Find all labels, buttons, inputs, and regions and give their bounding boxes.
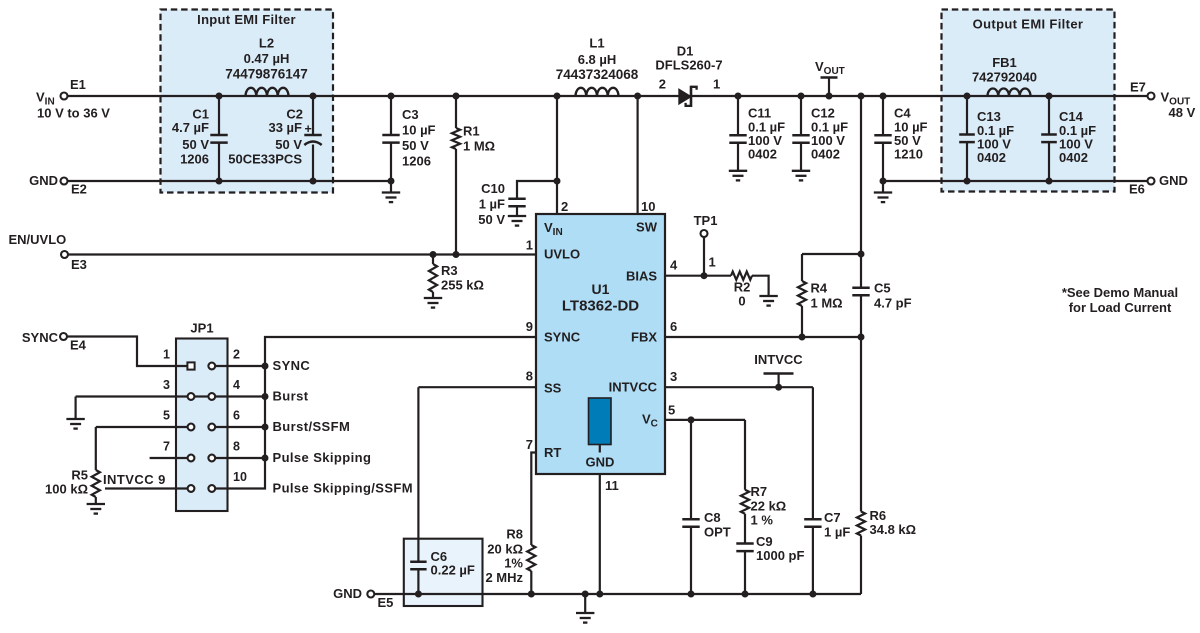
svg-text:Pulse Skipping/SSFM: Pulse Skipping/SSFM bbox=[273, 481, 414, 496]
svg-text:C8: C8 bbox=[704, 510, 721, 525]
svg-text:OPT: OPT bbox=[704, 525, 731, 540]
svg-text:TP1: TP1 bbox=[694, 213, 718, 228]
svg-text:SW: SW bbox=[636, 220, 658, 235]
svg-text:4: 4 bbox=[670, 258, 678, 273]
svg-text:1000 pF: 1000 pF bbox=[756, 548, 804, 563]
svg-text:7: 7 bbox=[526, 437, 533, 452]
svg-text:0402: 0402 bbox=[1059, 150, 1088, 165]
svg-text:742792040: 742792040 bbox=[972, 70, 1037, 85]
svg-text:3: 3 bbox=[163, 378, 170, 392]
svg-text:SYNC: SYNC bbox=[273, 358, 311, 373]
svg-text:C11: C11 bbox=[748, 106, 771, 121]
svg-text:7: 7 bbox=[163, 440, 170, 454]
svg-text:Burst/SSFM: Burst/SSFM bbox=[273, 419, 351, 434]
svg-text:2: 2 bbox=[659, 77, 666, 92]
svg-text:SYNC: SYNC bbox=[544, 330, 581, 345]
svg-text:RT: RT bbox=[544, 445, 561, 460]
svg-text:C10: C10 bbox=[481, 181, 505, 196]
svg-text:9: 9 bbox=[526, 319, 533, 334]
svg-text:R3: R3 bbox=[441, 263, 458, 278]
svg-text:3: 3 bbox=[670, 369, 677, 384]
svg-text:E5: E5 bbox=[378, 595, 394, 610]
svg-text:C14: C14 bbox=[1059, 109, 1084, 124]
svg-text:100 kΩ: 100 kΩ bbox=[45, 482, 88, 497]
svg-text:BIAS: BIAS bbox=[626, 269, 657, 284]
svg-text:0402: 0402 bbox=[811, 147, 840, 162]
svg-text:0.22 µF: 0.22 µF bbox=[431, 563, 475, 578]
svg-text:C12: C12 bbox=[811, 106, 835, 121]
svg-text:C3: C3 bbox=[402, 107, 419, 122]
svg-text:GND: GND bbox=[1159, 173, 1188, 188]
svg-text:R5: R5 bbox=[71, 468, 88, 483]
svg-text:1206: 1206 bbox=[180, 152, 209, 167]
svg-text:FBX: FBX bbox=[631, 330, 657, 345]
svg-text:255 kΩ: 255 kΩ bbox=[441, 278, 484, 293]
svg-text:10 V to 36 V: 10 V to 36 V bbox=[37, 106, 110, 121]
svg-text:R6: R6 bbox=[870, 508, 887, 523]
svg-text:L2: L2 bbox=[259, 36, 274, 51]
svg-text:1 %: 1 % bbox=[751, 513, 774, 528]
svg-text:6: 6 bbox=[233, 409, 240, 423]
svg-text:D1: D1 bbox=[677, 44, 694, 59]
svg-text:4: 4 bbox=[233, 378, 240, 392]
svg-text:6.8 µH: 6.8 µH bbox=[578, 52, 617, 67]
svg-text:50CE33PCS: 50CE33PCS bbox=[228, 152, 302, 167]
svg-text:R4: R4 bbox=[811, 281, 828, 296]
svg-text:1: 1 bbox=[526, 238, 533, 253]
svg-text:E3: E3 bbox=[71, 257, 87, 272]
svg-text:C7: C7 bbox=[824, 510, 841, 525]
svg-text:JP1: JP1 bbox=[190, 321, 213, 336]
svg-text:C9: C9 bbox=[756, 534, 773, 549]
svg-text:5: 5 bbox=[163, 409, 170, 423]
svg-text:50 V: 50 V bbox=[402, 138, 429, 153]
svg-text:R2: R2 bbox=[734, 280, 751, 295]
svg-text:74479876147: 74479876147 bbox=[225, 67, 308, 82]
svg-text:1 MΩ: 1 MΩ bbox=[463, 139, 495, 154]
svg-text:50 V: 50 V bbox=[275, 137, 302, 152]
svg-text:10 µF: 10 µF bbox=[402, 123, 436, 138]
svg-text:2 MHz: 2 MHz bbox=[485, 570, 523, 585]
svg-text:1: 1 bbox=[163, 348, 170, 362]
svg-text:Output EMI Filter: Output EMI Filter bbox=[973, 17, 1084, 32]
svg-text:GND: GND bbox=[29, 173, 58, 188]
svg-text:SYNC: SYNC bbox=[22, 330, 59, 345]
svg-text:74437324068: 74437324068 bbox=[556, 67, 639, 82]
svg-text:*See Demo Manual: *See Demo Manual bbox=[1062, 285, 1178, 300]
svg-text:FB1: FB1 bbox=[992, 55, 1017, 70]
svg-text:LT8362-DD: LT8362-DD bbox=[562, 298, 639, 315]
svg-text:INTVCC: INTVCC bbox=[754, 352, 803, 367]
svg-text:5: 5 bbox=[668, 403, 675, 418]
svg-text:8: 8 bbox=[526, 369, 533, 384]
svg-text:U1: U1 bbox=[592, 281, 610, 297]
svg-text:+: + bbox=[305, 122, 312, 136]
svg-text:E6: E6 bbox=[1129, 182, 1145, 197]
svg-text:11: 11 bbox=[605, 478, 619, 493]
svg-text:0.47 µH: 0.47 µH bbox=[244, 51, 290, 66]
svg-text:1: 1 bbox=[709, 255, 716, 270]
svg-text:EN/UVLO: EN/UVLO bbox=[9, 232, 67, 247]
svg-text:R7: R7 bbox=[751, 484, 768, 499]
svg-text:20 kΩ: 20 kΩ bbox=[487, 542, 523, 557]
svg-text:2: 2 bbox=[233, 348, 240, 362]
svg-text:Input EMI Filter: Input EMI Filter bbox=[197, 12, 296, 27]
svg-text:10: 10 bbox=[641, 199, 655, 214]
svg-text:GND: GND bbox=[333, 586, 362, 601]
svg-text:33 µF: 33 µF bbox=[268, 120, 302, 135]
svg-text:50 V: 50 V bbox=[182, 137, 209, 152]
svg-text:VOUT: VOUT bbox=[815, 59, 845, 77]
svg-text:GND: GND bbox=[586, 455, 615, 470]
svg-text:1 MΩ: 1 MΩ bbox=[811, 296, 843, 311]
svg-text:4.7 pF: 4.7 pF bbox=[874, 296, 912, 311]
svg-text:1206: 1206 bbox=[402, 154, 431, 169]
svg-text:E7: E7 bbox=[1130, 80, 1146, 95]
svg-text:C4: C4 bbox=[894, 106, 911, 121]
svg-text:50 V: 50 V bbox=[478, 212, 505, 227]
svg-text:48 V: 48 V bbox=[1169, 105, 1196, 120]
svg-text:34.8 kΩ: 34.8 kΩ bbox=[870, 522, 917, 537]
svg-text:DFLS260-7: DFLS260-7 bbox=[655, 58, 722, 73]
svg-text:E2: E2 bbox=[71, 182, 87, 197]
svg-text:22 kΩ: 22 kΩ bbox=[751, 499, 787, 514]
svg-text:UVLO: UVLO bbox=[544, 247, 580, 262]
svg-text:10: 10 bbox=[233, 470, 247, 484]
svg-text:INTVCC: INTVCC bbox=[609, 380, 658, 395]
svg-text:0: 0 bbox=[738, 294, 745, 309]
svg-text:6: 6 bbox=[670, 319, 677, 334]
svg-text:Burst: Burst bbox=[273, 389, 309, 404]
svg-text:R8: R8 bbox=[506, 527, 523, 542]
svg-text:0402: 0402 bbox=[977, 150, 1006, 165]
svg-text:for Load Current: for Load Current bbox=[1069, 300, 1172, 315]
svg-text:C13: C13 bbox=[977, 109, 1001, 124]
svg-text:C5: C5 bbox=[874, 281, 891, 296]
svg-text:1 µF: 1 µF bbox=[824, 525, 850, 540]
svg-text:1 µF: 1 µF bbox=[479, 197, 505, 212]
svg-text:L1: L1 bbox=[589, 36, 604, 51]
svg-text:0402: 0402 bbox=[748, 147, 777, 162]
svg-text:2: 2 bbox=[561, 199, 568, 214]
svg-text:E4: E4 bbox=[70, 338, 87, 353]
svg-text:1210: 1210 bbox=[894, 147, 923, 162]
svg-text:Pulse Skipping: Pulse Skipping bbox=[273, 450, 372, 465]
svg-text:R1: R1 bbox=[463, 124, 480, 139]
svg-text:4.7 µF: 4.7 µF bbox=[172, 120, 209, 135]
svg-text:1%: 1% bbox=[504, 556, 523, 571]
svg-text:E1: E1 bbox=[70, 77, 86, 92]
svg-text:8: 8 bbox=[233, 440, 240, 454]
svg-text:INTVCC 9: INTVCC 9 bbox=[103, 472, 166, 487]
svg-text:1: 1 bbox=[713, 77, 720, 92]
svg-text:SS: SS bbox=[544, 381, 562, 396]
